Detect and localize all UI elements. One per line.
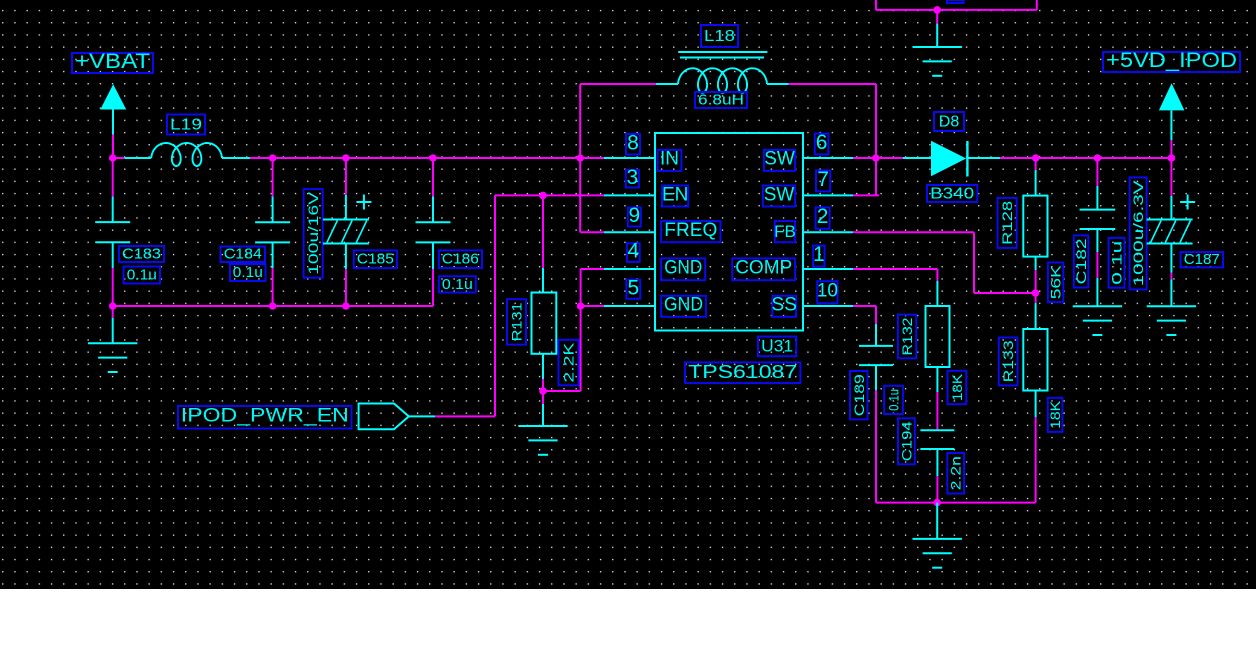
svg-text:5: 5 [627, 276, 639, 299]
svg-text:56K: 56K [1048, 264, 1064, 299]
junction [1032, 154, 1040, 162]
wire [1096, 252, 1098, 278]
pin 5 GND [604, 305, 655, 307]
svg-text:1000u/6.3V: 1000u/6.3V [1130, 179, 1146, 286]
junction [342, 154, 350, 162]
svg-text:C194: C194 [898, 421, 914, 461]
capacitor C183 [119, 246, 164, 262]
wire [875, 390, 877, 502]
svg-text:18K: 18K [949, 373, 965, 401]
svg-text:C185: C185 [357, 251, 394, 268]
svg-text:0.1u: 0.1u [127, 266, 157, 283]
op-amp U31 TPS61087 body [655, 133, 803, 331]
wire [936, 392, 938, 430]
svg-text:0.1u: 0.1u [233, 264, 263, 281]
svg-text:TPS61087: TPS61087 [688, 362, 797, 382]
svg-text:R132: R132 [899, 317, 915, 355]
svg-text:COMP: COMP [735, 258, 792, 279]
wire [1170, 273, 1172, 280]
resistor R128 [1035, 158, 1037, 170]
pin 3 EN [604, 194, 655, 196]
svg-text:0.1u: 0.1u [886, 389, 902, 411]
wire L18 left leg [580, 83, 656, 85]
junction [269, 154, 277, 162]
junction [933, 499, 941, 507]
svg-text:+VBAT: +VBAT [75, 50, 150, 73]
wire IPOD_PWR_EN [435, 415, 495, 417]
svg-text:2: 2 [817, 205, 829, 228]
svg-text:7: 7 [817, 168, 829, 191]
svg-text:R133: R133 [1000, 340, 1016, 382]
wire [1035, 270, 1037, 293]
diode D8 [903, 157, 931, 159]
capacitor C189 [875, 324, 877, 346]
junction [539, 192, 547, 200]
ground [936, 503, 938, 539]
junction [269, 302, 277, 310]
label fragment [947, 0, 964, 3]
wire [272, 158, 274, 197]
wire [1170, 140, 1172, 158]
pin 1 COMP [803, 268, 853, 270]
wire GND riser [580, 269, 582, 391]
value TPS61087 [685, 362, 800, 383]
capacitor C184 [221, 247, 266, 263]
pin 4 GND [604, 268, 655, 270]
wire COMP [853, 268, 937, 270]
port IPOD_PWR_EN [178, 406, 352, 429]
svg-text:EN: EN [662, 184, 688, 205]
svg-text:B340: B340 [930, 185, 974, 202]
svg-text:R131: R131 [509, 302, 525, 341]
junction [577, 302, 585, 310]
capacitor C182 [1096, 158, 1098, 186]
wire [543, 390, 581, 392]
wire [936, 476, 938, 503]
wire comp rail [876, 502, 1036, 504]
wire [542, 195, 544, 268]
svg-text:6: 6 [816, 131, 828, 154]
wire ground rail [113, 305, 433, 307]
wire top net [876, 9, 1037, 11]
pin 6 SW [803, 157, 853, 159]
wire [272, 268, 274, 306]
svg-text:3: 3 [626, 166, 638, 189]
pin 8 IN [604, 157, 655, 159]
svg-text:L19: L19 [170, 116, 202, 133]
ground [542, 391, 544, 404]
svg-text:GND: GND [664, 258, 702, 279]
svg-text:FREQ: FREQ [664, 220, 717, 241]
junction [429, 154, 437, 162]
junction [539, 387, 547, 395]
svg-text:C186: C186 [442, 251, 479, 268]
svg-text:SW: SW [764, 149, 795, 170]
svg-text:R128: R128 [999, 201, 1015, 245]
svg-text:8: 8 [627, 131, 639, 154]
junction [872, 154, 880, 162]
svg-text:SS: SS [772, 295, 797, 316]
junction [109, 302, 117, 310]
junction [576, 154, 584, 162]
svg-text:4: 4 [627, 240, 639, 263]
capacitor C186 [439, 250, 482, 268]
svg-text:D8: D8 [939, 113, 960, 130]
resistor R132 [936, 281, 938, 306]
wire IN net [250, 157, 605, 159]
wire gnd stub [112, 306, 114, 318]
wire EN [495, 194, 604, 196]
pin 10 SS [803, 305, 853, 307]
wire FREQ stub [580, 231, 604, 233]
wire VBAT node [112, 157, 124, 159]
pin 9 FREQ [604, 231, 655, 233]
capacitor C194 [920, 429, 954, 431]
svg-text:9: 9 [628, 204, 640, 227]
svg-text:C183: C183 [122, 245, 161, 262]
ground [1096, 278, 1098, 306]
svg-text:SW: SW [764, 184, 795, 205]
inductor L19 [167, 115, 205, 135]
svg-text:IPOD_PWR_EN: IPOD_PWR_EN [181, 406, 349, 427]
svg-text:L18: L18 [704, 28, 735, 45]
svg-text:1: 1 [813, 243, 825, 266]
svg-text:C187: C187 [1184, 251, 1220, 268]
inductor L18 [701, 25, 738, 47]
resistor R131 [542, 268, 544, 293]
svg-text:2.2K: 2.2K [561, 342, 577, 383]
svg-text:0.1u: 0.1u [442, 276, 473, 293]
wire [345, 158, 347, 195]
svg-text:6.8uH: 6.8uH [698, 91, 744, 108]
svg-text:18K: 18K [1047, 400, 1063, 429]
wire FB [853, 231, 974, 233]
wire SS [853, 305, 876, 307]
junction [1094, 154, 1102, 162]
junction [1168, 154, 1176, 162]
capacitor C187 [1181, 252, 1223, 267]
svg-text:0.1u: 0.1u [1109, 241, 1125, 285]
svg-text:10: 10 [817, 281, 838, 302]
inductor L18 value 6.8uH [695, 92, 747, 108]
wire L18 right leg [789, 83, 877, 85]
pin 7 SW [803, 194, 853, 196]
junction [342, 302, 350, 310]
ground [1170, 279, 1172, 306]
svg-text:C184: C184 [224, 246, 262, 263]
svg-text:U31: U31 [761, 337, 793, 356]
wire [432, 269, 434, 306]
svg-text:+5VD_IPOD: +5VD_IPOD [1106, 49, 1237, 72]
ground [936, 10, 938, 24]
capacitor C185 [354, 250, 397, 268]
svg-text:IN: IN [660, 149, 679, 170]
resistor R133 [1035, 293, 1037, 303]
svg-text:GND: GND [664, 295, 703, 316]
svg-text:C189: C189 [851, 374, 867, 416]
svg-text:C182: C182 [1073, 238, 1089, 284]
refdes U31 [758, 337, 796, 357]
svg-text:FB: FB [774, 222, 796, 241]
power symbol +5VD_IPOD [1103, 52, 1240, 72]
wire [112, 135, 114, 159]
junction [109, 154, 117, 162]
power symbol +VBAT [72, 53, 153, 73]
wire [542, 379, 544, 391]
junction [933, 6, 941, 14]
svg-text:100u/16V: 100u/16V [305, 191, 321, 275]
wire [1035, 417, 1037, 503]
wire [112, 268, 114, 306]
wire [112, 158, 114, 197]
svg-text:2.2n: 2.2n [948, 456, 964, 490]
junction [1032, 289, 1040, 297]
wire [432, 158, 434, 197]
ground [112, 318, 114, 343]
pin 2 FB [803, 231, 853, 233]
wire [345, 269, 347, 306]
wire 5V net [1000, 157, 1171, 159]
wire SW [853, 194, 879, 196]
